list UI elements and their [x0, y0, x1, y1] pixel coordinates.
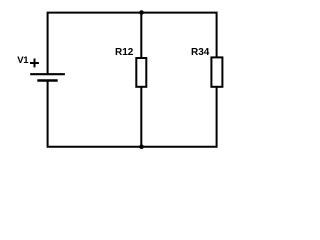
svg-text:V1: V1 [17, 55, 29, 66]
svg-text:R12: R12 [115, 47, 134, 58]
svg-text:R34: R34 [191, 47, 210, 58]
